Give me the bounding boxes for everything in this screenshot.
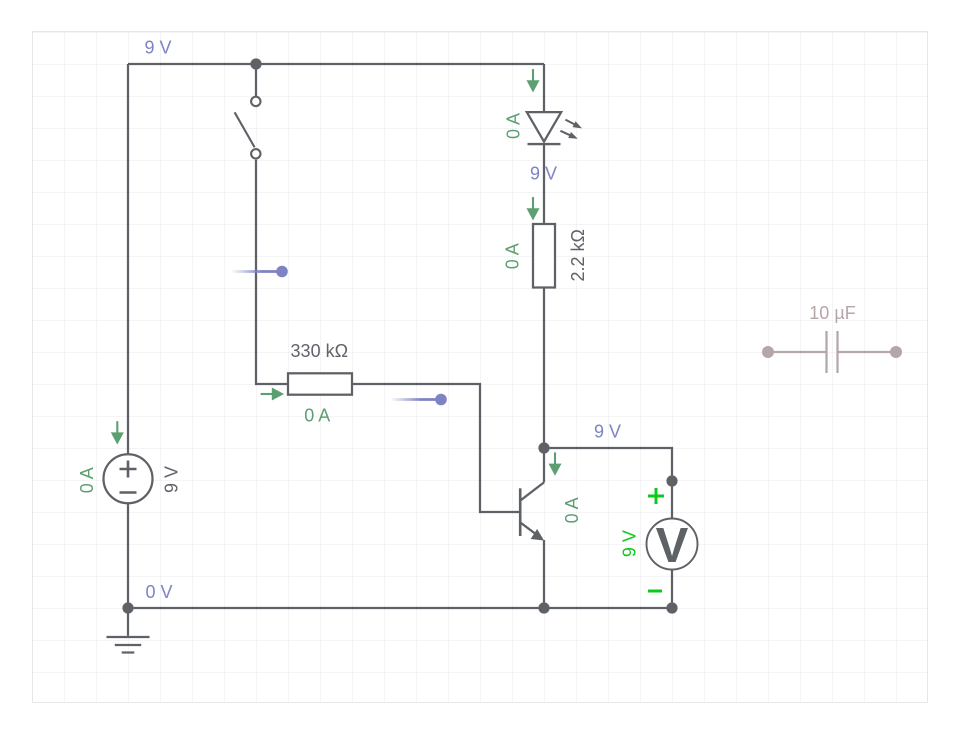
svg-text:0 A: 0 A xyxy=(503,113,523,139)
current arrow into V1 (0 A) xyxy=(111,421,124,444)
wire: voltmeter bottom lead xyxy=(671,569,673,608)
svg-text:0 A: 0 A xyxy=(304,405,330,425)
svg-text:9 V: 9 V xyxy=(530,163,557,183)
svg-text:9 V: 9 V xyxy=(594,422,621,442)
probe 1 (voltage probe on switch output) xyxy=(232,266,288,278)
transistor Q1 (NPN) xyxy=(520,482,544,540)
label: voltmeter plus xyxy=(648,488,664,504)
svg-text:9 V: 9 V xyxy=(145,37,172,57)
svg-text:330 kΩ: 330 kΩ xyxy=(291,341,349,361)
voltage source V1 9 V xyxy=(104,454,182,503)
svg-text:0 A: 0 A xyxy=(503,243,523,269)
wire: R2 right to transistor base xyxy=(352,384,520,512)
svg-text:10 µF: 10 µF xyxy=(809,303,855,323)
current arrow into LED (0 A) xyxy=(527,69,540,92)
node: voltmeter plus terminal xyxy=(666,475,677,486)
current arrow at collector (0 A) xyxy=(549,452,562,475)
node: ground junction xyxy=(122,602,133,613)
resistor R1 2.2 kOhm xyxy=(533,224,588,288)
wire: left rail from 9V source up to top rail xyxy=(127,64,129,455)
wire: V1 minus down to ground node xyxy=(127,503,129,608)
svg-text:0 V: 0 V xyxy=(146,582,173,602)
svg-text:2.2 kΩ: 2.2 kΩ xyxy=(568,229,588,281)
node: junction top rail / switch xyxy=(250,58,261,69)
svg-text:0 A: 0 A xyxy=(77,467,97,493)
svg-text:0 A: 0 A xyxy=(562,497,582,523)
resistor R2 330 kOhm xyxy=(288,341,352,395)
wire: voltmeter top lead xyxy=(671,481,673,520)
switch SW1 (open) xyxy=(235,97,261,159)
voltmeter M1 xyxy=(647,519,698,574)
wire: emitter down to bottom rail xyxy=(543,540,545,608)
svg-text:V: V xyxy=(656,519,689,573)
LED D1 xyxy=(527,64,561,224)
node: collector junction (9 V net to voltmeter) xyxy=(538,442,549,453)
probe 2 (voltage probe on base wire) xyxy=(391,394,447,406)
wire: switch bottom terminal down and right to R2 xyxy=(256,160,288,384)
LED light arrows xyxy=(560,120,582,139)
wire: collector node to voltmeter top xyxy=(544,448,672,481)
svg-text:9 V: 9 V xyxy=(161,466,181,493)
node: voltmeter minus terminal xyxy=(666,602,677,613)
capacitor C1 10 uF (ghost / being placed) xyxy=(762,303,902,373)
wire: collector up to node xyxy=(543,448,545,482)
svg-text:9 V: 9 V xyxy=(619,530,639,557)
label: voltmeter minus xyxy=(648,590,662,593)
ground GND1 xyxy=(107,608,150,653)
wire: top rail (9 V net) xyxy=(128,63,544,65)
node: emitter junction on bottom rail xyxy=(538,602,549,613)
current arrow into R2 (0 A) xyxy=(261,388,284,401)
wire: bottom rail (0 V net) xyxy=(128,607,672,609)
current arrow into R1 (0 A) xyxy=(527,197,540,220)
wire: top rail to switch top terminal xyxy=(255,64,257,96)
wire: R1 bottom down to collector node xyxy=(543,288,545,449)
